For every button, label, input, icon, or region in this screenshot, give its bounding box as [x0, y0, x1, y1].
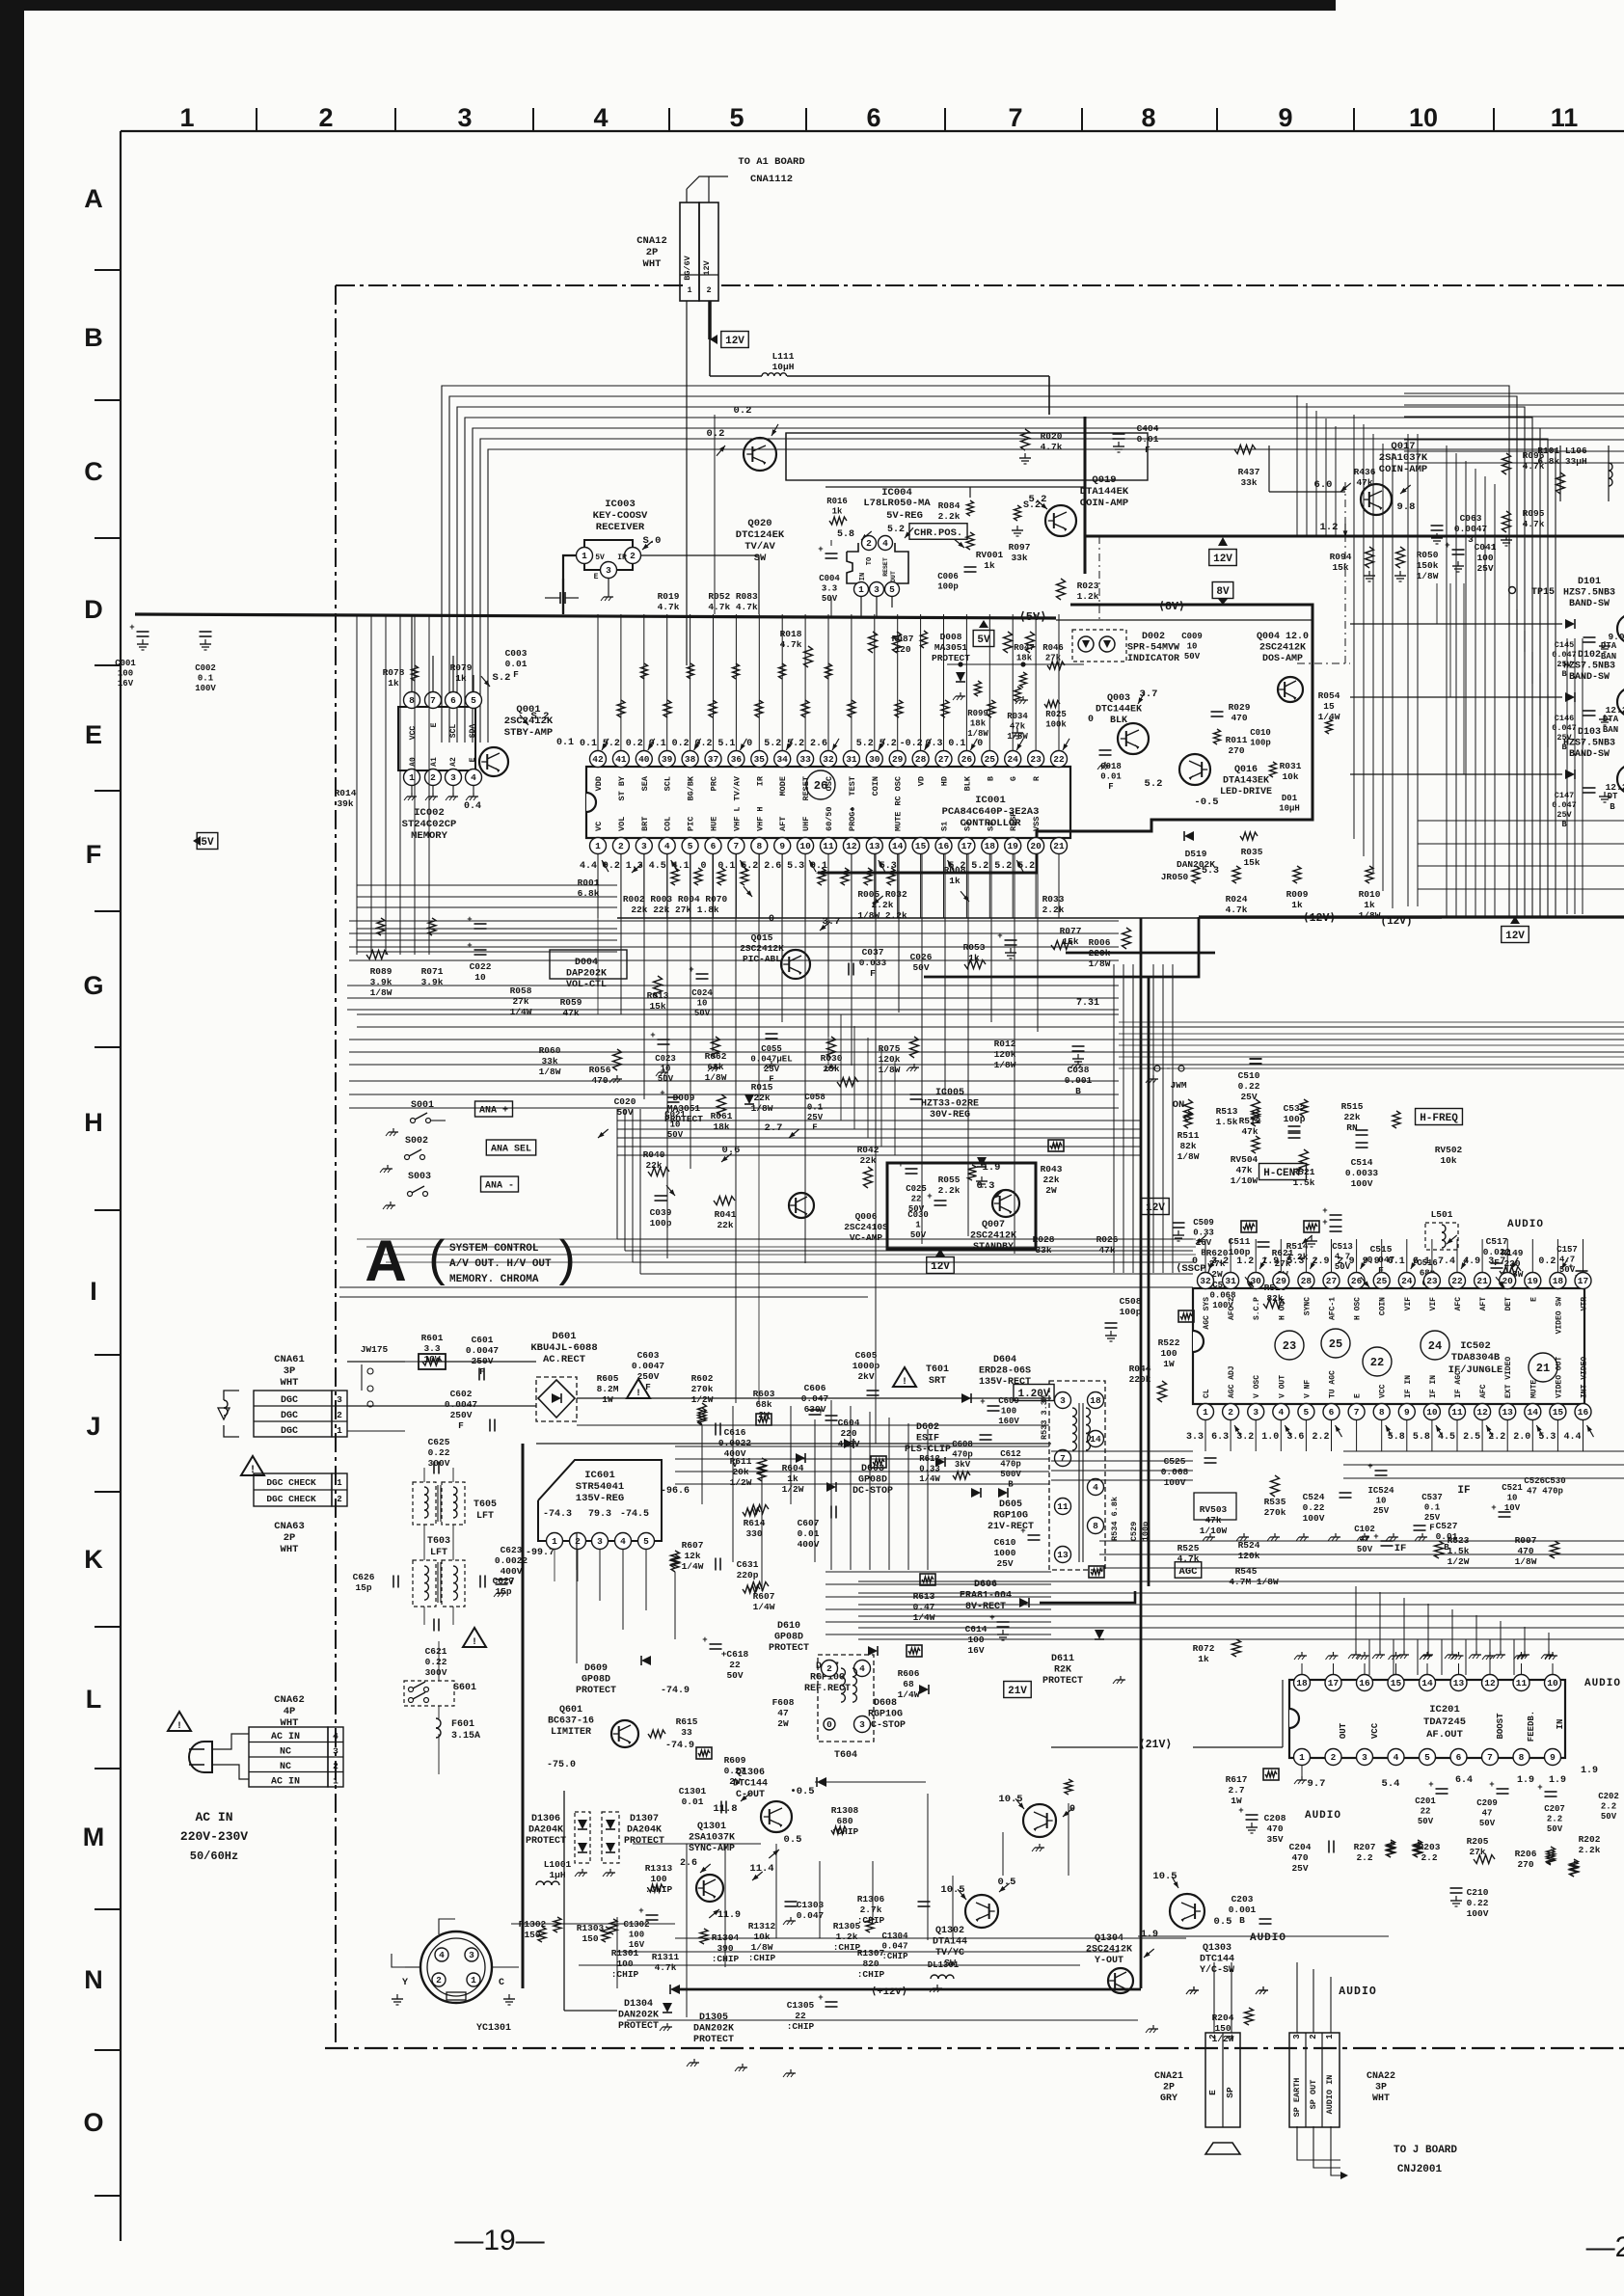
svg-text:470: 470: [1291, 1852, 1308, 1863]
svg-text:—2: —2: [1586, 2231, 1624, 2263]
flag arrows above IC502 pins: [1209, 1257, 1216, 1269]
resistor R620 27k 2W: [1206, 1248, 1229, 1280]
resistor R514 3.2k: [1286, 1241, 1309, 1262]
svg-text:10: 10: [799, 841, 811, 851]
resistor R009 1k: [1286, 889, 1309, 910]
svg-text:5.2: 5.2: [764, 739, 781, 749]
svg-text:DC-STOP: DC-STOP: [865, 1720, 906, 1731]
svg-text:I: I: [90, 1277, 97, 1306]
svg-text:V NF: V NF: [1303, 1380, 1312, 1398]
svg-text:Q1306: Q1306: [736, 1768, 765, 1778]
resistor R149 220 1/8W: [1502, 1248, 1524, 1280]
svg-text:C145: C145: [1555, 640, 1574, 650]
svg-text:22k: 22k: [1042, 1175, 1059, 1185]
svg-text:IF: IF: [1394, 1543, 1407, 1554]
svg-text:2.2: 2.2: [1356, 1852, 1372, 1863]
svg-text:STR54041: STR54041: [576, 1481, 624, 1493]
svg-text:22: 22: [1053, 754, 1065, 765]
resistor R053 1k: [963, 942, 986, 963]
svg-text:18: 18: [985, 841, 996, 851]
svg-text:H-FREQ: H-FREQ: [1420, 1113, 1458, 1124]
svg-text:0.1: 0.1: [1424, 1503, 1441, 1513]
svg-text:R1307: R1307: [857, 1948, 885, 1958]
8V rail bold: [1040, 1591, 1135, 1603]
svg-text:SCL: SCL: [663, 776, 673, 791]
svg-text:0: 0: [1088, 715, 1094, 725]
label S.2 flags: [493, 672, 511, 684]
capacitor C612 470p 500V: [1000, 1449, 1021, 1490]
svg-text:15k: 15k: [1243, 857, 1259, 868]
svg-text:C616: C616: [724, 1427, 746, 1438]
svg-text:C515: C515: [1370, 1244, 1393, 1255]
svg-text:15p: 15p: [355, 1582, 371, 1593]
svg-text:ERA81-004: ERA81-004: [960, 1591, 1012, 1602]
resistor R606 68 1/4W: [898, 1668, 920, 1700]
svg-text:IF IN: IF IN: [1429, 1375, 1438, 1398]
svg-text:R072: R072: [1193, 1643, 1215, 1654]
svg-text:1/8W: 1/8W: [1515, 1556, 1537, 1567]
svg-text:41: 41: [615, 754, 627, 765]
svg-text:1/2W: 1/2W: [1448, 1556, 1470, 1567]
svg-text:C621: C621: [425, 1646, 447, 1657]
svg-text:D601: D601: [552, 1331, 576, 1342]
svg-text:Q001: Q001: [516, 704, 540, 716]
svg-text:IF/JUNGLE: IF/JUNGLE: [1448, 1364, 1503, 1376]
wire bottom video block border: [563, 1791, 565, 2011]
svg-text:3: 3: [859, 1719, 865, 1730]
label JR050: [1161, 872, 1189, 882]
svg-text::CHIP: :CHIP: [611, 1969, 639, 1980]
svg-text:C203: C203: [1232, 1894, 1254, 1904]
svg-text:DA204K: DA204K: [627, 1825, 662, 1836]
svg-text:ANA -: ANA -: [485, 1181, 514, 1192]
svg-text:R206: R206: [1515, 1849, 1537, 1859]
svg-text:R602: R602: [691, 1373, 714, 1384]
wire K row right horizontals: [1099, 1540, 1624, 1542]
wire J row verticals: [1113, 964, 1115, 1273]
svg-text:27k: 27k: [1469, 1847, 1485, 1857]
svg-text:R1311: R1311: [652, 1952, 680, 1962]
svg-text:C202: C202: [1598, 1792, 1619, 1801]
wires IC002 pins up to 5V: [411, 614, 413, 692]
svg-text:C524: C524: [1303, 1492, 1325, 1502]
svg-text:15: 15: [1553, 1407, 1564, 1418]
fuse F608 47 2W: [772, 1697, 795, 1729]
resistor RV502 10k: [1435, 1145, 1463, 1166]
svg-text:T604: T604: [834, 1750, 857, 1761]
svg-text:B: B: [84, 323, 103, 352]
resistor R101 6.8k: [1556, 473, 1565, 494]
label 12V box: [721, 332, 748, 348]
svg-text:11: 11: [1516, 1678, 1528, 1688]
svg-text:11: 11: [823, 841, 834, 851]
svg-text:D009: D009: [673, 1093, 695, 1103]
svg-text:Q016: Q016: [1234, 765, 1258, 775]
svg-text:1W: 1W: [1163, 1359, 1175, 1369]
svg-text:30: 30: [869, 754, 880, 765]
svg-text:R1312: R1312: [748, 1921, 776, 1931]
svg-text:VSS: VSS: [1032, 817, 1042, 831]
svg-text:1: 1: [337, 1425, 342, 1436]
label ANA- boxed: [481, 1176, 519, 1192]
resistor R043 22k 2W: [1041, 1164, 1063, 1196]
svg-text:12: 12: [846, 841, 857, 851]
svg-text:WHT: WHT: [643, 258, 662, 270]
svg-text:AFT: AFT: [1479, 1297, 1488, 1311]
svg-text:IF: IF: [1457, 1485, 1470, 1497]
svg-text:R043: R043: [1041, 1164, 1063, 1175]
svg-text:H OUT: H OUT: [1278, 1297, 1286, 1320]
svg-text:4: 4: [333, 1731, 338, 1742]
IC004 name label: [881, 487, 912, 499]
wire right area verticals tuner drop: [1446, 446, 1448, 916]
wire J row right horizontals: [1343, 1450, 1624, 1452]
resistor R030 15k: [821, 1053, 843, 1074]
svg-text:⟨8V⟩: ⟨8V⟩: [1158, 601, 1185, 613]
svg-text:2.7: 2.7: [1228, 1785, 1244, 1796]
flag arrows scatter: [632, 864, 642, 873]
svg-text:PROTECT: PROTECT: [1042, 1676, 1083, 1687]
label 21V boxed: [1004, 1682, 1031, 1698]
svg-text:R617: R617: [1226, 1774, 1248, 1785]
svg-text:D004: D004: [575, 958, 598, 968]
svg-text:R615: R615: [676, 1716, 698, 1727]
svg-text:B: B: [986, 776, 995, 781]
resistor R614 330: [744, 1518, 766, 1539]
IC001 OSC circle 26: [806, 770, 835, 799]
svg-text:CONTROLLOR: CONTROLLOR: [960, 818, 1021, 829]
svg-text:15: 15: [1391, 1678, 1402, 1688]
resistor symbols G left: [377, 918, 385, 935]
svg-text:DGC: DGC: [281, 1411, 298, 1421]
svg-text:R094: R094: [1330, 552, 1352, 562]
svg-text:S601: S601: [453, 1683, 476, 1693]
label 120V boxed: [1014, 1385, 1054, 1401]
svg-text:47k: 47k: [1241, 1126, 1258, 1137]
svg-text:C517: C517: [1486, 1236, 1508, 1247]
svg-text:21: 21: [1476, 1276, 1488, 1286]
svg-text:E: E: [85, 720, 102, 749]
svg-text:8: 8: [1519, 1752, 1525, 1763]
warning triangle K row: [463, 1628, 486, 1647]
svg-text:4.7k 4.7k: 4.7k 4.7k: [708, 602, 758, 612]
svg-text:TV/YC: TV/YC: [935, 1947, 964, 1958]
svg-text:79.3: 79.3: [588, 1509, 611, 1520]
svg-text:9: 9: [1278, 103, 1292, 132]
svg-text:+: +: [467, 941, 472, 951]
svg-text:6: 6: [866, 103, 880, 132]
wire L row audio bundle: [858, 1580, 1624, 1582]
svg-text:2: 2: [430, 772, 436, 783]
svg-text:3: 3: [337, 1394, 342, 1405]
svg-text:C513: C513: [1332, 1242, 1353, 1252]
svg-text:R052 R083: R052 R083: [708, 591, 758, 602]
svg-text:100p: 100p: [937, 582, 959, 592]
svg-text:R1302: R1302: [519, 1919, 547, 1930]
svg-text:RECEIVER: RECEIVER: [596, 522, 645, 533]
svg-text:R436: R436: [1354, 467, 1376, 477]
svg-text:1.9: 1.9: [1517, 1775, 1534, 1786]
svg-text:4P: 4P: [284, 1706, 296, 1717]
svg-text:PROTECT: PROTECT: [693, 2035, 734, 2045]
svg-text:IR: IR: [617, 554, 627, 562]
ruler top line: [121, 130, 1624, 132]
svg-text:22: 22: [1451, 1276, 1463, 1286]
label IF: [1457, 1485, 1470, 1497]
capacitor C002 0.1 100V: [200, 632, 212, 636]
transistor Q1301 2SA1037K SYNC-AMP: [689, 1822, 735, 1854]
svg-text:0.0033: 0.0033: [1345, 1168, 1379, 1178]
bold primary isolation line: [522, 1444, 525, 1988]
svg-text:R014: R014: [335, 788, 357, 798]
capacitor C1303 0.047: [797, 1900, 825, 1921]
svg-text:8: 8: [1141, 103, 1155, 132]
svg-text:-0.5: -0.5: [1194, 797, 1218, 808]
svg-text:0.047: 0.047: [1552, 723, 1577, 733]
svg-text:C025: C025: [906, 1184, 927, 1194]
diode D1305 DAN202K PROTECT: [693, 2012, 734, 2045]
svg-text:R077: R077: [1060, 926, 1082, 936]
svg-text:R060: R060: [539, 1045, 561, 1056]
svg-text:0.01: 0.01: [1100, 772, 1122, 782]
wire drops from controller to G-H rows: [597, 854, 599, 1014]
svg-text:RV502: RV502: [1435, 1145, 1463, 1155]
svg-text:4.7k: 4.7k: [1226, 905, 1248, 915]
capacitor C208 470 35V: [1264, 1813, 1286, 1845]
resistor R1308 680 CHIP: [831, 1805, 859, 1837]
svg-text:IC001: IC001: [975, 795, 1006, 806]
resistor R071 3.9k: [421, 966, 444, 987]
inductor L111 10uH: [772, 351, 795, 372]
svg-text:4.5: 4.5: [649, 861, 666, 872]
svg-text:C010: C010: [1250, 728, 1271, 738]
svg-text:24: 24: [1401, 1276, 1413, 1286]
svg-text:R056: R056: [589, 1065, 611, 1075]
capacitor C529 100p: [1129, 1522, 1139, 1541]
svg-text:32: 32: [1200, 1276, 1211, 1286]
svg-text:LIMITER: LIMITER: [551, 1727, 591, 1738]
resistor R041 22k: [715, 1209, 737, 1230]
svg-text:1: 1: [552, 1536, 557, 1547]
svg-text:LED-DRIVE: LED-DRIVE: [1220, 787, 1272, 797]
resistor R040 22k: [643, 1149, 665, 1171]
svg-text::CHIP: :CHIP: [857, 1969, 885, 1980]
svg-text:R097: R097: [1009, 542, 1031, 553]
svg-text:3.3: 3.3: [423, 1343, 440, 1354]
capacitor C207 2.2 50V: [1544, 1804, 1565, 1834]
svg-text:!: !: [636, 1389, 641, 1399]
svg-text:16V: 16V: [118, 679, 134, 689]
wire IC201 pin grounds: [1301, 1765, 1303, 1776]
svg-text:31: 31: [846, 754, 857, 765]
svg-text:470: 470: [591, 1075, 608, 1086]
IC201 bottom pins 1-9: [1294, 1749, 1311, 1766]
svg-text:C608: C608: [952, 1440, 973, 1449]
svg-text:NC: NC: [280, 1747, 291, 1758]
svg-text:7: 7: [1487, 1752, 1493, 1763]
diode D009 MA3051 PROTECT: [664, 1093, 703, 1124]
svg-text:C157: C157: [1556, 1245, 1578, 1255]
svg-text:4.7k: 4.7k: [1041, 442, 1063, 452]
resistor R602 270k 1/2W: [691, 1373, 714, 1405]
transistor Q001 2SC2412K STBY-AMP: [479, 747, 508, 776]
switch S003: [408, 1172, 431, 1182]
svg-text:+: +: [689, 965, 693, 975]
svg-text:0: 0: [977, 739, 983, 749]
capacitor C1304 0.047: [881, 1931, 908, 1961]
wire M row mid: [633, 1843, 761, 1845]
svg-text:50V: 50V: [1547, 1824, 1563, 1834]
resistor R534 6.8k: [1110, 1497, 1120, 1541]
box around R020 C404 row: [786, 433, 1148, 480]
label 7.31: [1076, 998, 1099, 1009]
svg-text:100: 100: [650, 1874, 666, 1884]
svg-text:1/8W: 1/8W: [967, 729, 988, 739]
svg-text:BAND-SW: BAND-SW: [1569, 672, 1610, 683]
resistor R437 33k: [1234, 446, 1256, 454]
svg-text:0.001: 0.001: [1229, 1904, 1257, 1915]
svg-text:18k: 18k: [713, 1121, 729, 1132]
resistor R062 68k 1/8W: [705, 1051, 727, 1083]
resistor R055 2.2k: [938, 1175, 961, 1196]
svg-text:+: +: [1020, 1526, 1025, 1536]
svg-text:L501: L501: [1431, 1209, 1453, 1220]
svg-text:8: 8: [1093, 1521, 1098, 1531]
svg-text:37: 37: [708, 754, 719, 765]
svg-text:YC1301: YC1301: [476, 2023, 511, 2034]
wire IC004 pins down to 5V: [860, 597, 862, 618]
svg-text:3: 3: [450, 772, 456, 783]
resistor R007 470 1/8W: [1515, 1535, 1537, 1567]
svg-text:1k: 1k: [1364, 900, 1375, 910]
svg-text:0.5: 0.5: [998, 1877, 1016, 1888]
svg-text:5.8: 5.8: [1413, 1432, 1430, 1443]
svg-text:2: 2: [618, 841, 624, 851]
svg-text:-74.5: -74.5: [620, 1509, 649, 1520]
svg-text:C058: C058: [804, 1093, 826, 1102]
capacitor C063 0.0047: [1431, 526, 1444, 530]
svg-text:R061: R061: [711, 1111, 733, 1121]
svg-text:1/8W 2.2k: 1/8W 2.2k: [857, 910, 907, 921]
wire vertical 741: [714, 415, 716, 614]
svg-text:Q601: Q601: [559, 1705, 582, 1715]
scanner edge black bar top: [24, 0, 1336, 11]
svg-text:R041: R041: [715, 1209, 737, 1220]
svg-text:D609: D609: [584, 1663, 608, 1674]
svg-text:C209: C209: [1476, 1798, 1498, 1808]
svg-text:2.2k: 2.2k: [1042, 905, 1065, 915]
wire audio bundle verticals right: [1355, 1586, 1357, 1651]
svg-text:10: 10: [697, 999, 708, 1009]
svg-text:E: E: [1207, 2090, 1218, 2095]
diode D519 DAN202K row: [1184, 831, 1194, 841]
capacitor C601 0.0047 250V: [466, 1335, 500, 1377]
resistor RV503 47k 1/10W: [1200, 1504, 1228, 1536]
svg-text:2.2k: 2.2k: [1579, 1845, 1601, 1855]
resistor R615 33: [676, 1716, 698, 1738]
svg-text:8.2M: 8.2M: [597, 1384, 619, 1394]
svg-text:19: 19: [1007, 841, 1018, 851]
svg-text:120k: 120k: [1238, 1551, 1260, 1561]
diode D605 RGP10G 21V-RECT: [988, 1499, 1034, 1532]
svg-text:50V: 50V: [822, 594, 838, 604]
resistor R436 47k: [1354, 467, 1376, 488]
svg-text:3.3: 3.3: [822, 584, 837, 594]
svg-text:DTA: DTA: [1601, 641, 1617, 651]
wire right edge C-D: [1559, 446, 1561, 501]
resistor R054 15 1/4W: [1318, 690, 1340, 722]
transistor Q020 DTC124EK: [744, 438, 776, 471]
svg-text:50/60Hz: 50/60Hz: [190, 1850, 238, 1863]
svg-text:5.2: 5.2: [887, 525, 905, 535]
svg-text:100V: 100V: [1164, 1477, 1186, 1488]
svg-text:R605: R605: [597, 1373, 619, 1384]
svg-text:D01: D01: [1282, 794, 1298, 803]
svg-text:7: 7: [734, 841, 740, 851]
svg-text:COL: COL: [663, 817, 673, 831]
svg-text:12: 12: [1484, 1678, 1496, 1688]
svg-text:VC-AMP: VC-AMP: [850, 1232, 883, 1243]
svg-text:A1: A1: [430, 757, 439, 767]
svg-text:1W: 1W: [602, 1394, 613, 1405]
svg-text:R095: R095: [1523, 508, 1545, 519]
svg-text:AFC: AFC: [1454, 1297, 1463, 1311]
svg-text:2P: 2P: [284, 1532, 296, 1544]
wires CNA22 down: [1297, 2126, 1340, 2160]
svg-text:3.7: 3.7: [1140, 689, 1158, 700]
svg-text:135V-RECT: 135V-RECT: [979, 1377, 1031, 1388]
svg-text:3: 3: [457, 103, 472, 132]
resistor R075 120k 1/8W: [879, 1043, 901, 1075]
svg-text:C037: C037: [862, 947, 884, 958]
IC601 STR54041 body: [538, 1460, 662, 1541]
svg-text:6.4: 6.4: [1455, 1775, 1473, 1786]
svg-text:C527: C527: [1436, 1521, 1458, 1531]
capacitor C202 2.2 50V: [1598, 1792, 1619, 1822]
svg-text:-75.0: -75.0: [547, 1760, 576, 1770]
svg-text:14: 14: [1528, 1407, 1539, 1418]
svg-text:+: +: [1489, 1780, 1494, 1790]
svg-text:CNA22: CNA22: [1367, 2071, 1395, 2082]
svg-text:DTA143EK: DTA143EK: [1223, 776, 1269, 787]
label CNA63 2P WHT: [274, 1521, 305, 1555]
transistor Q019 emitter resistor R023 1.2k: [1057, 579, 1066, 600]
svg-text:AFC-1: AFC-1: [1329, 1297, 1338, 1320]
resistor R029 470: [1229, 702, 1251, 723]
svg-text:12k: 12k: [684, 1551, 700, 1561]
svg-text:R099: R099: [967, 709, 988, 718]
resistor R1305 1.2k CHIP: [833, 1921, 861, 1953]
svg-text:C001: C001: [115, 659, 136, 668]
svg-text:4.7k: 4.7k: [1523, 519, 1545, 529]
svg-text:4: 4: [1093, 1482, 1098, 1493]
svg-text:22k: 22k: [717, 1220, 733, 1230]
resistor R1313 100 CHIP: [645, 1863, 673, 1895]
svg-text:DGC: DGC: [281, 1395, 298, 1406]
svg-text:AGC SYS: AGC SYS: [1203, 1297, 1211, 1330]
svg-text:0.5: 0.5: [1214, 1916, 1232, 1928]
svg-text:7.4: 7.4: [1438, 1256, 1455, 1267]
svg-text:+: +: [1322, 1218, 1327, 1228]
label AUDIO right: [1507, 1219, 1544, 1230]
svg-text:100V: 100V: [195, 684, 216, 693]
svg-text:JR050: JR050: [1161, 872, 1189, 882]
svg-text:DET: DET: [1504, 1297, 1513, 1311]
transistor Q101 partial right edge: [1617, 614, 1624, 643]
transistor Q1303 DTC144 label: [1200, 1943, 1234, 1976]
svg-text:50V: 50V: [1184, 652, 1201, 662]
svg-text:FEEDB.: FEEDB.: [1527, 1711, 1536, 1742]
